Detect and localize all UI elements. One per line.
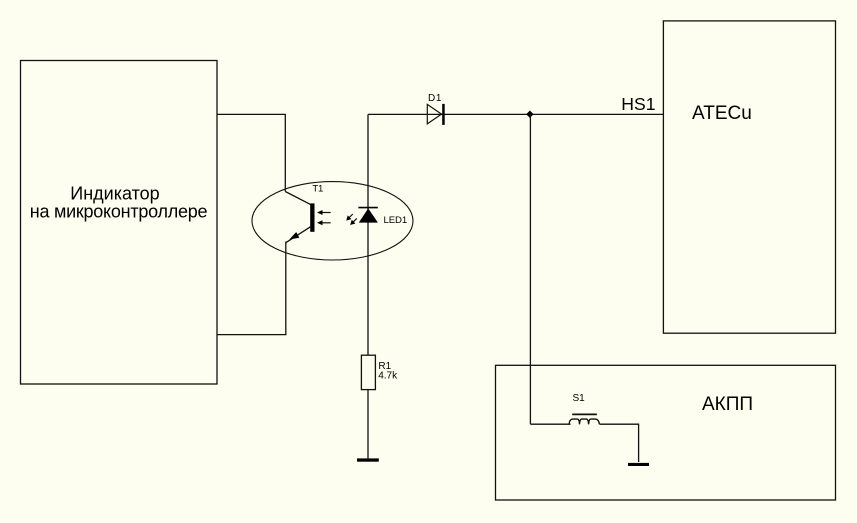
svg-text:D1: D1 [428,93,442,104]
svg-text:ATECu: ATECu [692,103,752,124]
svg-text:4.7k: 4.7k [378,371,398,382]
LED1 emission arrow (upper) [346,214,353,221]
svg-text:АКПП: АКПП [702,394,753,415]
LED1 emission arrow (lower) [350,218,357,225]
ground (resistor side) [357,458,379,461]
transistor T1 emitter line [286,227,310,243]
diode D1 cathode bar [442,104,445,125]
inductor S1 [569,414,599,424]
wire: left box to collector (top) [217,114,285,191]
wire: to inductor S1 [530,423,570,425]
LED1 triangle [359,208,378,222]
svg-text:LED1: LED1 [384,215,408,226]
svg-text:HS1: HS1 [621,94,655,114]
transistor T1 emitter arrowhead [289,232,299,240]
ground (АКПП side) [628,463,649,466]
photon arrow into base (lower) [317,220,331,225]
junction node [526,111,533,118]
block: Индикатор на микроконтроллере [21,61,218,385]
wire: junction down into АКПП box [529,114,531,424]
svg-text:на микроконтроллере: на микроконтроллере [30,202,208,222]
svg-text:S1: S1 [573,393,586,404]
svg-text:T1: T1 [312,183,323,194]
optocoupler ellipse [252,182,413,260]
wire: top horizontal through D1 to ATECu [368,113,663,115]
transistor T1 collector line [285,192,310,205]
block: АКПП [496,365,836,500]
wire: emitter return to left box [217,242,286,335]
wire: LED branch vertical (top wire to resistor) [367,114,369,458]
photon arrow into base (upper) [317,210,331,215]
LED1 cathode bar [358,207,377,209]
wire: inductor to ground drop [600,424,639,462]
block: ATECu [663,21,835,333]
diode D1 triangle [427,104,441,124]
svg-text:Индикатор: Индикатор [70,184,159,204]
transistor T1 base bar [310,203,314,231]
resistor R1 [361,355,375,389]
